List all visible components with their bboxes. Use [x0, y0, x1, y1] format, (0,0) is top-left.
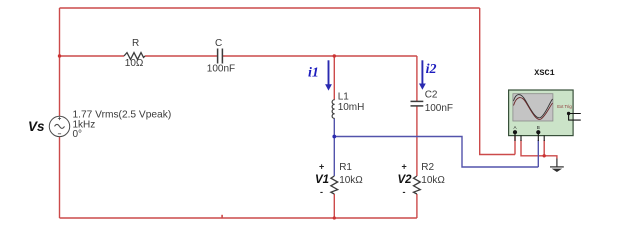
svg-text:B: B [537, 125, 540, 130]
svg-text:V1: V1 [315, 174, 329, 186]
ext trig pin dot [567, 112, 570, 115]
resistor R zigzag [124, 53, 145, 60]
wire R1 bottom [333, 194, 335, 218]
oscilloscope XSC1 body [509, 90, 573, 136]
pin B+ dot [536, 130, 540, 134]
source Vs circle [49, 116, 69, 136]
current arrow i1 [325, 60, 332, 90]
pin A+ stub [514, 132, 516, 141]
svg-text:+: + [402, 162, 407, 172]
svg-text:10kΩ: 10kΩ [421, 175, 445, 186]
svg-text:100nF: 100nF [207, 64, 235, 75]
wire scope B+ riser (blue) [537, 140, 539, 167]
svg-text:-: - [403, 187, 406, 197]
svg-text:C2: C2 [425, 90, 438, 101]
wire scope B- drop [543, 140, 545, 156]
capacitor C [218, 49, 223, 64]
pin B+ stub [537, 132, 539, 141]
node junction B- ground [543, 154, 546, 157]
resistor R1 [331, 176, 338, 194]
source sine symbol [55, 124, 65, 128]
wire mid line C to corner [223, 55, 417, 57]
screen waveform B [514, 98, 553, 120]
svg-text:R2: R2 [421, 162, 434, 173]
svg-text:10mH: 10mH [338, 102, 365, 113]
wire scope A- to ground (red) [521, 140, 557, 159]
pin A- stub [520, 136, 522, 142]
svg-text:Ext Trig: Ext Trig [557, 104, 572, 109]
svg-text:-: - [320, 187, 323, 197]
node junction L1 top [333, 54, 336, 57]
svg-text:C: C [215, 38, 222, 49]
wire left vertical upper [59, 8, 61, 116]
svg-text:R: R [132, 38, 139, 49]
wire mid line left of R [60, 55, 125, 57]
svg-text:0°: 0° [73, 129, 83, 140]
node junction bottom rail mid [221, 215, 223, 218]
node junction blue tap [332, 135, 336, 139]
resistor R2 [414, 176, 421, 194]
svg-text:V2: V2 [398, 174, 413, 186]
svg-text:XSC1: XSC1 [534, 68, 554, 78]
svg-text:L1: L1 [338, 92, 350, 103]
wire L1 to R1 (blue) [333, 118, 335, 176]
svg-text:Vs: Vs [28, 119, 45, 134]
svg-text:10Ω: 10Ω [125, 58, 144, 69]
wire scope A+ riser [514, 133, 516, 155]
wire R2 bottom [416, 194, 418, 218]
wire bottom rail [60, 217, 417, 219]
wire C2 branch upper [416, 56, 418, 101]
wire right drop to scope [480, 8, 515, 155]
screen waveform A [514, 95, 553, 118]
wire mid line R to C [145, 55, 217, 57]
svg-text:i1: i1 [308, 66, 319, 81]
inductor L1 [332, 100, 334, 119]
ext trig pin wire [569, 114, 581, 121]
ground triangle [552, 169, 562, 172]
wire L1 branch upper [333, 56, 335, 100]
svg-text:R1: R1 [339, 162, 352, 173]
source minus mark [58, 133, 61, 135]
ground symbol [550, 159, 564, 167]
svg-text:100nF: 100nF [425, 103, 453, 114]
pin B- stub [543, 136, 545, 142]
svg-text:+: + [319, 162, 324, 172]
wire C2 to R2 [416, 106, 418, 176]
wire top rail [60, 7, 480, 9]
svg-text:10kΩ: 10kΩ [339, 175, 363, 186]
wire left vertical lower [59, 137, 61, 218]
wire blue tap to scope B+ [334, 137, 538, 168]
pin A+ dot [513, 130, 517, 134]
source plus mark [58, 117, 61, 120]
node junction left mid [58, 54, 61, 57]
capacitor C2 [411, 101, 424, 106]
oscilloscope screen [513, 94, 553, 121]
svg-text:i2: i2 [426, 62, 437, 77]
current arrow i2 [419, 60, 426, 90]
node junction R1 bottom rail [333, 216, 336, 219]
